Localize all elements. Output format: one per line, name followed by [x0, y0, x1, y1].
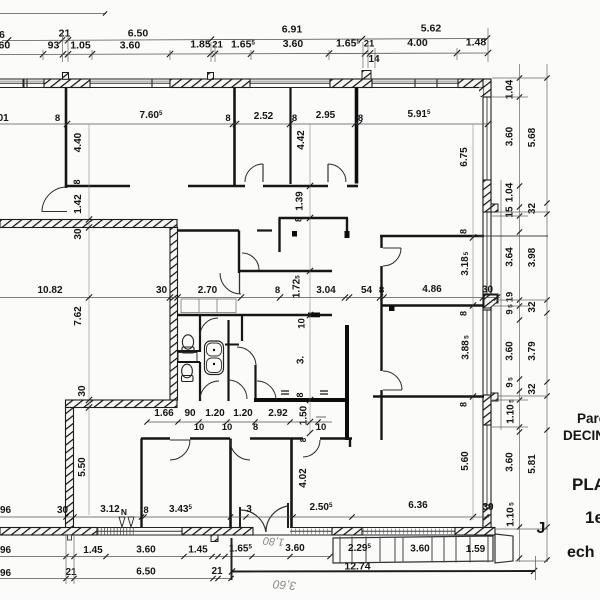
svg-text:8: 8 [459, 229, 469, 234]
svg-text:1,80: 1,80 [262, 534, 285, 548]
svg-text:21: 21 [364, 39, 375, 50]
svg-text:6.50: 6.50 [136, 567, 156, 578]
svg-text:DECINE: DECINE [563, 428, 600, 443]
svg-text:1.48: 1.48 [466, 37, 487, 49]
svg-text:32: 32 [527, 301, 538, 313]
svg-text:10: 10 [316, 422, 327, 433]
svg-text:N: N [121, 507, 127, 517]
svg-text:ech :: ech : [567, 544, 600, 561]
right wall hatched piers [483, 79, 491, 97]
double tick marks above black wall [281, 390, 289, 392]
svg-text:90: 90 [184, 408, 196, 419]
svg-text:30: 30 [482, 502, 494, 513]
svg-text:1.45: 1.45 [83, 545, 103, 556]
svg-text:3.60: 3.60 [505, 126, 516, 146]
svg-text:1.10: 1.10 [506, 507, 517, 527]
wall y230 (2.70 room top) [177, 229, 239, 232]
svg-text:5: 5 [463, 251, 470, 255]
door dressing main [237, 347, 256, 365]
partition x255.5 [254, 365, 256, 401]
svg-text:8: 8 [253, 422, 258, 433]
right dim col lines [500, 180, 502, 430]
svg-text:30: 30 [57, 505, 69, 516]
bottom row A [0, 556, 330, 558]
svg-text:6.36: 6.36 [408, 500, 428, 511]
french door bottom [240, 510, 266, 532]
svg-text:3.60: 3.60 [120, 40, 141, 52]
door lower-left room [170, 440, 190, 460]
door WC2 [200, 381, 219, 399]
svg-text:3.01: 3.01 [0, 113, 9, 124]
svg-text:54: 54 [361, 285, 373, 296]
room divider x230.5 [229, 439, 232, 528]
svg-text:3.18: 3.18 [460, 256, 471, 276]
basin box [178, 353, 197, 362]
corridor bottom wall y438.5 [141, 437, 170, 440]
wall y271 (hall top) [240, 270, 332, 272]
svg-text:19: 19 [505, 292, 516, 303]
svg-text:5: 5 [509, 502, 516, 506]
svg-text:5: 5 [295, 275, 302, 279]
shelf y362 [177, 361, 200, 363]
wall x239 [238, 231, 240, 274]
corridor top wall y186 [66, 185, 130, 188]
wall x381.5 [380, 236, 382, 248]
wall y315 (x177-332) [177, 314, 332, 317]
svg-text:1.59: 1.59 [466, 544, 486, 555]
svg-text:5.60: 5.60 [460, 451, 471, 471]
top exterior wall [0, 78, 490, 80]
svg-text:4.40: 4.40 [73, 132, 84, 152]
svg-text:4.02: 4.02 [298, 468, 309, 488]
svg-text:96: 96 [0, 545, 11, 556]
svg-text:3.60: 3.60 [285, 543, 305, 554]
svg-text:1.85: 1.85 [190, 39, 211, 51]
room divider x291.5 [290, 439, 293, 528]
toilet WC1 [182, 335, 193, 349]
svg-text:96: 96 [0, 505, 11, 516]
svg-text:3.64: 3.64 [505, 247, 516, 267]
svg-text:3.60: 3.60 [505, 341, 516, 361]
wc dim line [147, 421, 332, 423]
svg-text:8: 8 [294, 217, 304, 222]
interior wall x290 [289, 88, 291, 185]
door room 2.95 [328, 164, 346, 182]
svg-text:Parc: Parc [577, 411, 600, 426]
svg-text:6.50: 6.50 [128, 28, 149, 40]
svg-text:PLAN: PLAN [572, 475, 600, 494]
svg-text:1er: 1er [585, 508, 600, 527]
svg-text:10: 10 [222, 422, 233, 433]
door bath [200, 318, 218, 336]
WC partition x200 [199, 315, 201, 352]
svg-text:21: 21 [65, 567, 77, 578]
hatch block at wall junction right [484, 295, 497, 308]
svg-text:1.05: 1.05 [70, 40, 91, 52]
svg-text:5: 5 [464, 335, 471, 339]
svg-text:3,60: 3,60 [272, 577, 297, 593]
svg-text:93: 93 [48, 40, 60, 52]
interior wall x356 (black) [355, 88, 359, 184]
door room 2.52 [245, 164, 263, 182]
svg-text:3.60: 3.60 [410, 544, 430, 555]
door 2.70 room [220, 273, 241, 294]
wall y305.5 [382, 304, 485, 306]
interior top dim line [0, 123, 489, 125]
svg-text:5.62: 5.62 [421, 23, 442, 35]
svg-text:21: 21 [212, 40, 223, 51]
svg-text:2.95: 2.95 [316, 110, 336, 121]
svg-text:1.60: 1.60 [0, 40, 10, 52]
wall y396.5 (mid-right room bottom) [373, 395, 484, 397]
svg-text:6.75: 6.75 [459, 147, 470, 167]
shelf y351 [177, 350, 200, 352]
svg-text:J: J [537, 520, 546, 537]
svg-text:8: 8 [292, 113, 297, 124]
svg-text:30: 30 [482, 285, 494, 296]
door stop block [389, 306, 395, 312]
door mid-right room [383, 371, 402, 390]
svg-text:8: 8 [55, 113, 60, 124]
wardrobe along corridor [181, 299, 236, 313]
svg-text:3.: 3. [296, 356, 307, 365]
svg-text:5.81: 5.81 [527, 454, 538, 474]
svg-text:3.04: 3.04 [316, 285, 336, 296]
bath partition x228.5 [227, 320, 229, 401]
top dim row 0 [0, 13, 106, 15]
svg-text:3: 3 [246, 504, 252, 515]
right col ticks [517, 75, 522, 80]
window grid bottom-mid/right [291, 529, 293, 535]
door lower-mid room [230, 440, 250, 460]
left vertical wall lower (x65-73) [66, 408, 74, 536]
svg-text:7.62: 7.62 [73, 306, 84, 326]
svg-text:1.04: 1.04 [505, 182, 516, 202]
right extension lines [492, 77, 548, 79]
interior wall x65 (hall/left room) [65, 88, 68, 189]
svg-text:8: 8 [299, 437, 308, 442]
window grid bottom-left [97, 528, 99, 536]
svg-text:10: 10 [194, 422, 205, 433]
top dim row 2 [0, 53, 489, 55]
svg-text:10.82: 10.82 [37, 285, 62, 296]
black wall L: x347 vertical [345, 325, 349, 440]
svg-text:3.60: 3.60 [136, 545, 156, 556]
svg-text:3.98: 3.98 [527, 247, 538, 267]
svg-text:30: 30 [77, 385, 88, 397]
svg-text:1.42: 1.42 [73, 194, 84, 214]
black wall y400 [254, 398, 349, 402]
pilaster bumps on top wall [63, 73, 69, 80]
corridor bottom wall y218 (closet top) [279, 217, 349, 219]
svg-text:3.60: 3.60 [283, 38, 304, 50]
svg-text:8: 8 [459, 402, 469, 407]
door room 4.86 [383, 248, 401, 266]
right exterior wall [482, 88, 484, 532]
witness verticals bottom [65, 536, 67, 584]
svg-text:30: 30 [156, 285, 168, 296]
svg-text:3.88: 3.88 [461, 340, 472, 360]
svg-text:1.10: 1.10 [506, 404, 517, 424]
svg-text:8: 8 [358, 113, 363, 124]
svg-text:5: 5 [509, 399, 516, 403]
stub below at x350 [349, 439, 351, 448]
bottom wall bump below [211, 535, 218, 542]
black node [292, 231, 297, 237]
svg-text:9: 9 [505, 382, 516, 387]
door dressing lower-right [257, 381, 276, 400]
svg-text:1.72: 1.72 [292, 278, 303, 298]
svg-text:96: 96 [0, 568, 11, 579]
lower dim line [0, 516, 489, 518]
svg-text:8: 8 [72, 179, 82, 184]
closet left wall x279 [278, 218, 280, 252]
svg-text:8: 8 [295, 392, 305, 397]
svg-text:1.20: 1.20 [205, 408, 225, 419]
top dim row 1 [2, 39, 488, 41]
svg-text:8: 8 [225, 113, 230, 124]
svg-text:4.00: 4.00 [407, 37, 428, 49]
svg-text:8: 8 [275, 285, 280, 296]
bottom exterior wall [0, 527, 253, 529]
dressing niche wall x242 [241, 315, 243, 341]
toilet WC2 [182, 364, 193, 378]
mid dim line [0, 297, 500, 299]
svg-text:5.68: 5.68 [527, 127, 538, 147]
right wall bumps [491, 204, 498, 212]
svg-text:8: 8 [143, 505, 148, 516]
svg-text:2.52: 2.52 [254, 111, 274, 122]
svg-text:1.39: 1.39 [295, 191, 306, 211]
black segment on wall y315 [308, 313, 320, 318]
black cap [345, 231, 350, 238]
stub y338.5 [225, 344, 239, 346]
svg-text:1.66: 1.66 [154, 408, 174, 419]
svg-text:8: 8 [459, 311, 469, 316]
svg-text:1.45: 1.45 [188, 545, 208, 556]
middle-left exterior wall (30) [0, 220, 177, 228]
svg-text:1.04: 1.04 [505, 79, 516, 99]
door arc hall-left [42, 187, 67, 212]
door corridor center [303, 440, 320, 457]
svg-text:3.12: 3.12 [100, 504, 120, 515]
svg-text:10: 10 [297, 318, 308, 329]
svg-text:5.50: 5.50 [77, 457, 88, 477]
notch wall y400 [66, 400, 178, 408]
svg-text:5: 5 [508, 377, 515, 381]
svg-text:1.20: 1.20 [233, 408, 253, 419]
right rooms: wall y237.5 (4.86 room top) [380, 235, 484, 237]
door closet x239 [242, 253, 259, 270]
svg-text:6.91: 6.91 [282, 24, 303, 36]
left vertical wall upper (x170-177) [170, 228, 178, 401]
svg-text:3.60: 3.60 [505, 452, 516, 472]
svg-text:30: 30 [73, 228, 84, 240]
closet right wall x347 + cap [346, 218, 348, 232]
svg-text:21: 21 [59, 28, 71, 40]
room divider x141.5 [140, 439, 142, 528]
svg-text:3.79: 3.79 [527, 341, 538, 361]
svg-text:21: 21 [211, 566, 223, 577]
svg-text:2.92: 2.92 [268, 408, 288, 419]
bathtub [205, 341, 224, 375]
svg-text:9: 9 [505, 309, 516, 314]
interior wall x234 [233, 88, 236, 187]
bottom row B [0, 578, 232, 580]
svg-text:32: 32 [527, 383, 538, 395]
balcony end box [495, 534, 513, 563]
svg-text:2.70: 2.70 [198, 285, 218, 296]
balcony strip [333, 536, 493, 563]
svg-text:14: 14 [368, 54, 380, 65]
svg-text:8: 8 [379, 285, 384, 296]
door dressing lower-left [228, 380, 247, 399]
top wall hatched piers [44, 79, 90, 88]
svg-text:4.86: 4.86 [422, 284, 442, 295]
12.74 dim [232, 570, 536, 573]
witness verticals top [62, 32, 64, 62]
svg-text:4.42: 4.42 [296, 130, 307, 150]
witness verticals interior [88, 124, 90, 515]
